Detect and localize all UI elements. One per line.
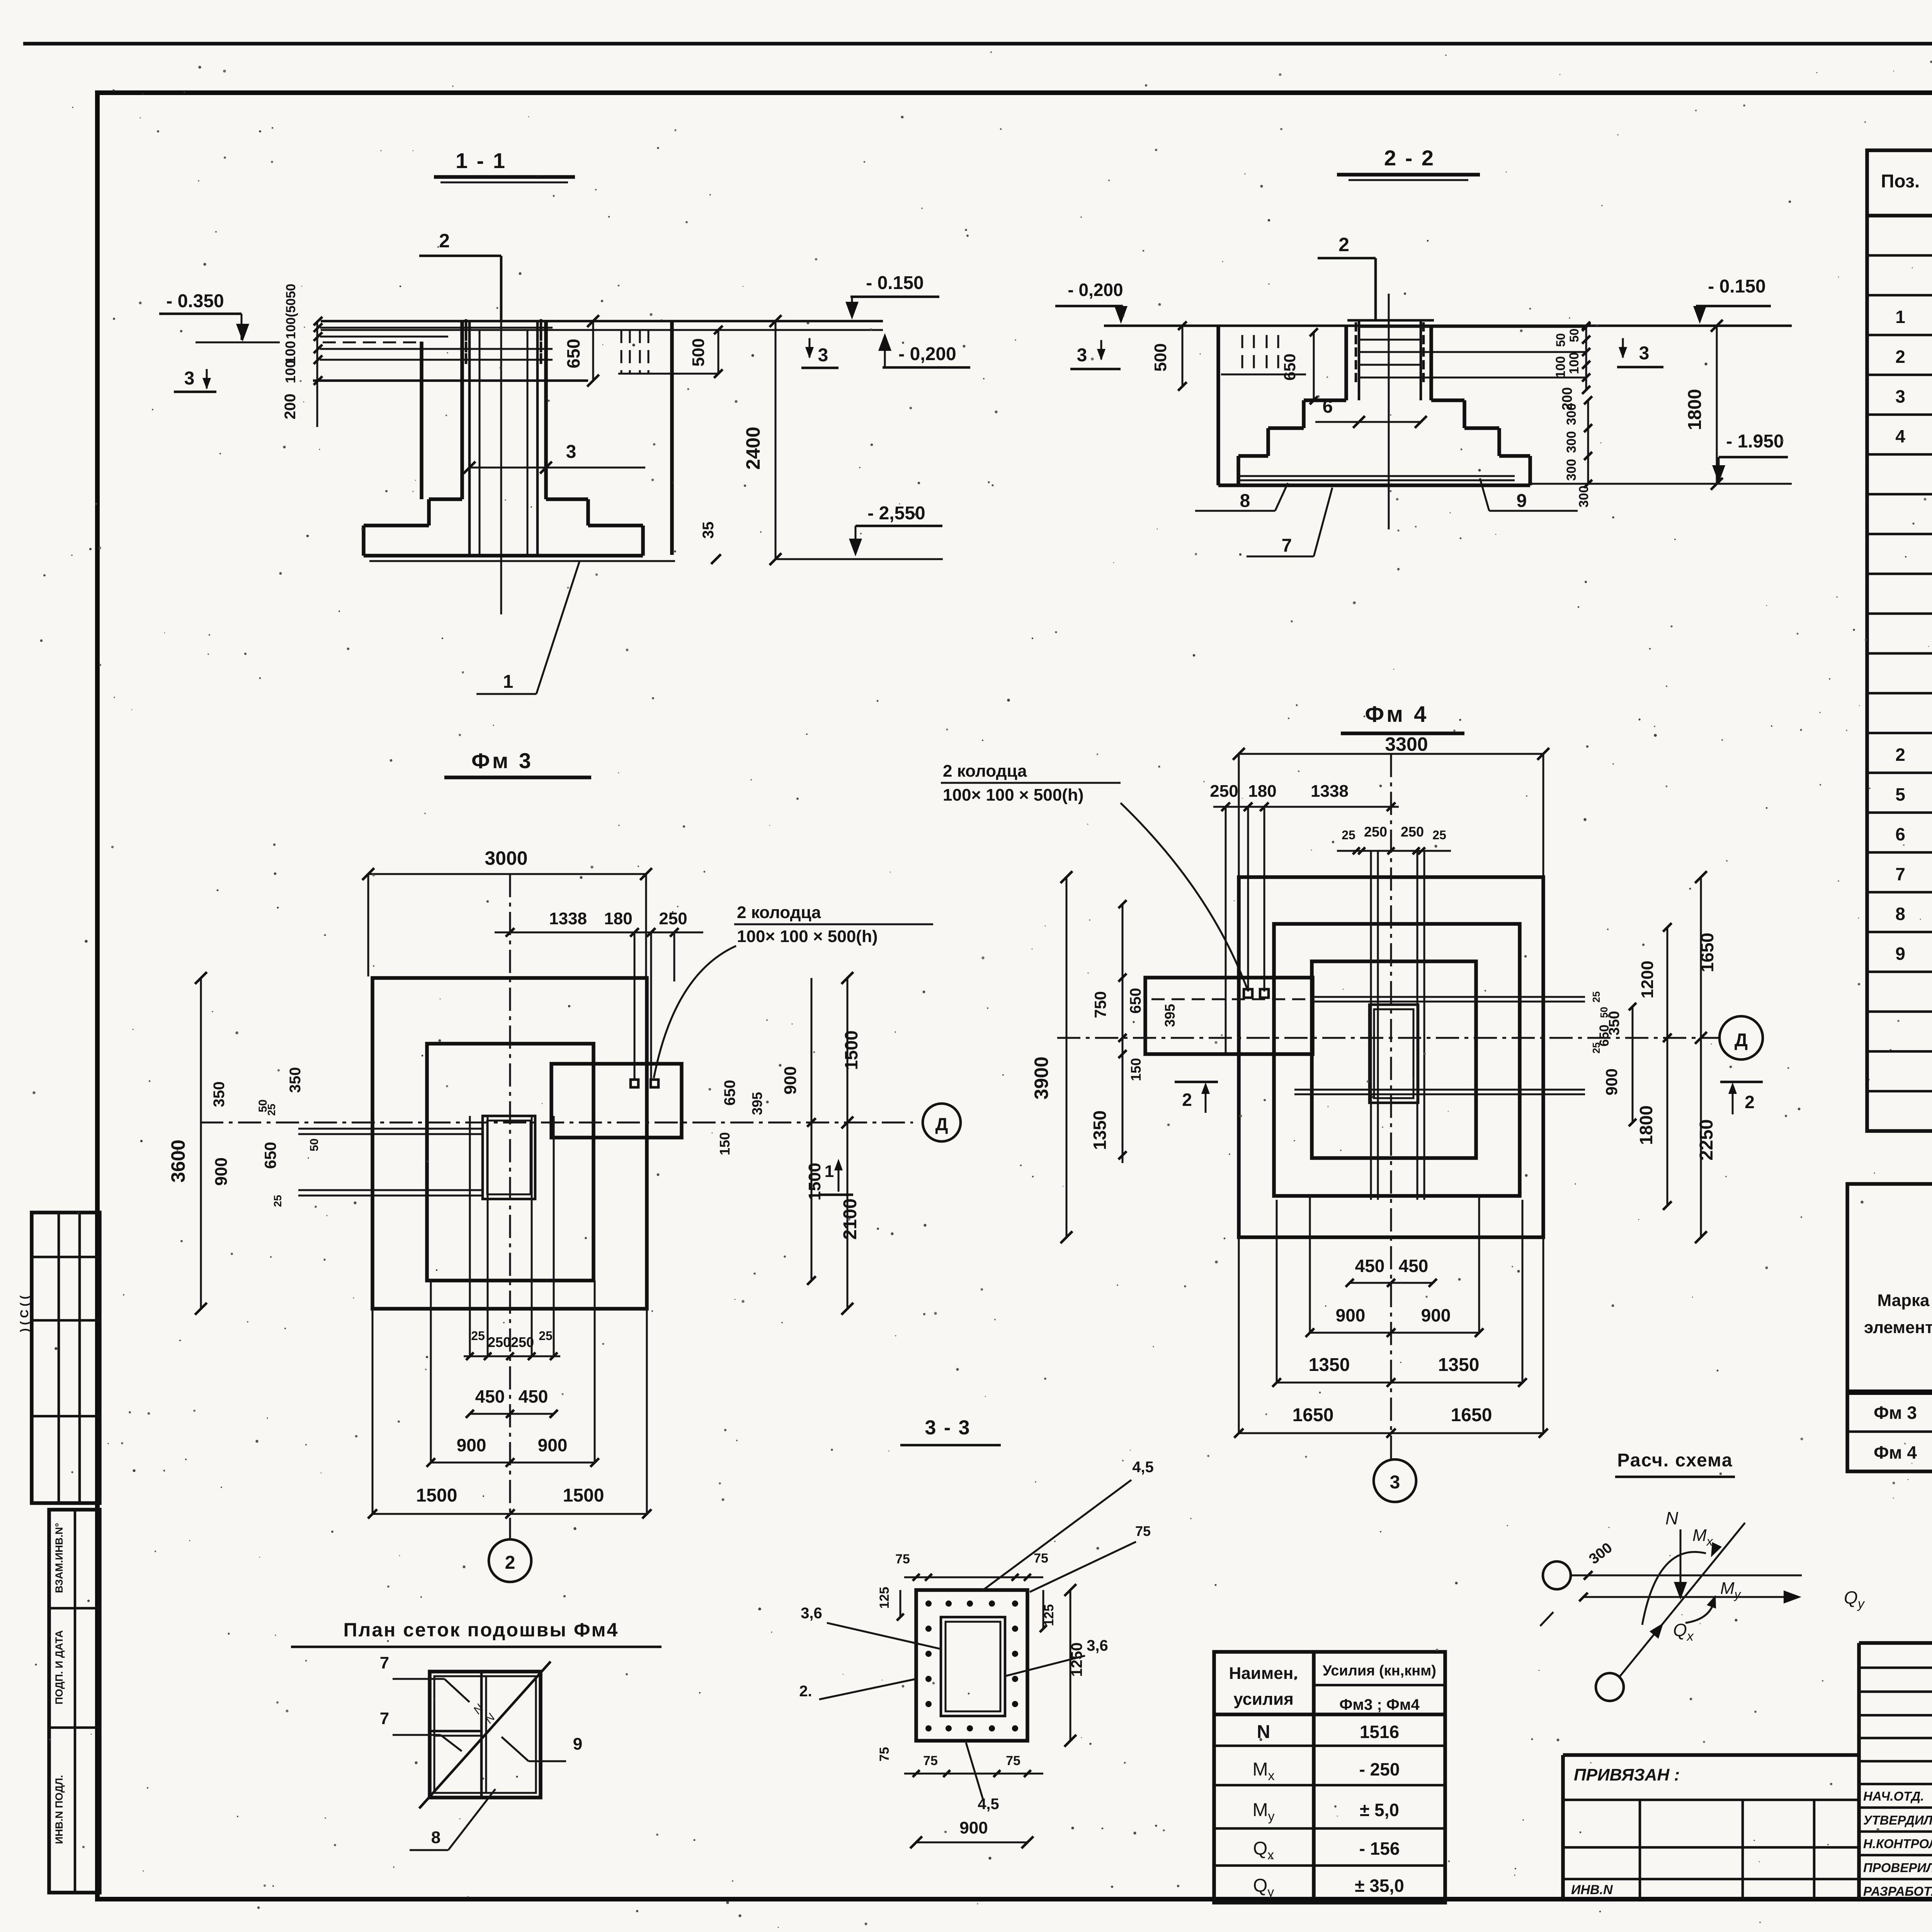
svg-text:1800: 1800 [1636,1105,1656,1145]
svg-text:900: 900 [1336,1305,1366,1325]
calc scheme node circle top [1543,1561,1571,1589]
plan Fm4 outer footprint [1239,877,1543,1237]
section 2-2 step dims 300 [1587,400,1589,484]
plan Fm4 wells [1244,989,1252,998]
section 2-2 left edge wall [1216,326,1220,485]
svg-text:ПРИВЯЗАН :: ПРИВЯЗАН : [1574,1765,1680,1784]
svg-text:1 - 1: 1 - 1 [456,148,507,173]
svg-text:250: 250 [1210,782,1238,801]
svg-text:- 0.150: - 0.150 [1708,276,1765,297]
svg-text:2 колодца: 2 колодца [943,762,1027,781]
svg-text:Фм 3: Фм 3 [1874,1403,1917,1423]
svg-text:1650: 1650 [1697,933,1717,972]
section 1-1 dim 2400 [775,321,777,559]
svg-text:Qy: Qy [1844,1587,1865,1611]
plan Fm4 dim 3300 [1239,753,1543,755]
left stamp upper table [32,1213,100,1503]
plan Fm3 bottom dims 450 450 [470,1413,554,1415]
svg-text:900: 900 [538,1435,568,1455]
calc scheme node circle bottom [1596,1673,1624,1701]
svg-text:650: 650 [721,1080,738,1106]
svg-text:900: 900 [212,1157,231,1185]
left stamp lower table [49,1510,100,1893]
svg-text:1: 1 [503,672,514,692]
plan Fm4 corbel block with wells [1145,978,1313,1054]
plan Fm3 middle block [427,1044,594,1281]
svg-text:Фм 4: Фм 4 [1365,702,1429,727]
svg-text:3: 3 [1390,1472,1400,1493]
svg-text:75: 75 [1034,1551,1048,1566]
svg-text:35: 35 [700,522,717,539]
section 3-3 dim 900 [916,1842,1027,1844]
svg-text:1500: 1500 [841,1031,861,1070]
svg-text:3: 3 [1639,343,1650,364]
section 2-2 lean concrete double line [1238,475,1515,477]
plan Fm3 axis circle 2 [489,1539,531,1582]
section 2-2 mesh extension lines and dims [1421,326,1586,328]
section 2-2 level line [1104,325,1792,327]
plan Fm3 bottom dims 25 250 250 25 [464,1355,560,1357]
svg-text:Расч. схема: Расч. схема [1617,1450,1733,1471]
svg-text:± 5,0: ± 5,0 [1360,1800,1399,1820]
svg-text:650: 650 [261,1142,279,1169]
plan Fm3 mesh bar pairs vertical [469,1116,471,1356]
calc scheme diagonal member [1619,1523,1745,1677]
svg-text:50: 50 [1567,328,1581,342]
plan Fm3 axes [200,1122,913,1124]
svg-text:3,6: 3,6 [1087,1637,1108,1654]
svg-text:1200: 1200 [1638,961,1657,998]
plan Fm4 mesh bar pairs horizontal [1151,998,1312,1000]
svg-text:2: 2 [1338,234,1349,255]
svg-text:3 - 3: 3 - 3 [925,1417,971,1439]
svg-text:1350: 1350 [1309,1355,1350,1375]
plan Fm3 wells [631,1080,638,1087]
svg-text:- 250: - 250 [1359,1759,1400,1779]
svg-text:100(5050: 100(5050 [284,284,298,339]
plan Fm3 bottom dims 1500 1500 [372,1513,647,1515]
svg-text:100× 100 × 500(h): 100× 100 × 500(h) [737,927,878,946]
svg-text:3: 3 [1077,345,1087,366]
svg-text:100: 100 [1567,352,1582,374]
svg-text:НАЧ.ОТД.: НАЧ.ОТД. [1863,1789,1924,1803]
plan Fm3 column pocket [483,1116,535,1199]
section 1-1 callout 3 [469,467,645,469]
svg-text:ИНВ.N: ИНВ.N [1571,1883,1613,1897]
svg-text:1: 1 [825,1162,834,1181]
svg-text:180: 180 [604,909,632,928]
section 2-2 dim 1800 [1716,326,1718,484]
plan Fm3 axis circle D [923,1104,961,1141]
calc scheme horizontal member lines [1571,1575,1802,1577]
svg-text:2.: 2. [799,1683,812,1700]
steel table grid [1847,1184,1932,1471]
svg-text:2250: 2250 [1696,1119,1717,1161]
svg-text:8: 8 [1895,904,1905,924]
svg-text:100× 100 × 500(h): 100× 100 × 500(h) [943,786,1083,804]
plan Fm3 mesh bar pairs horizontal [298,1128,483,1130]
svg-text:4,5: 4,5 [1132,1459,1154,1476]
svg-text:9: 9 [573,1735,582,1753]
forces table grid [1214,1652,1445,1903]
plan Fm4 bottom dims 1650 1650 [1239,1432,1543,1434]
svg-text:N: N [471,1702,486,1716]
svg-text:25: 25 [1432,828,1446,842]
svg-text:3600: 3600 [167,1139,189,1182]
plan setok inner dividers [480,1672,483,1798]
svg-text:100: 100 [282,360,298,383]
svg-text:3: 3 [566,442,577,462]
section 1-1 cup walls [460,321,464,499]
svg-text:7: 7 [380,1653,389,1672]
plan Fm4 column pocket [1369,1005,1418,1103]
svg-text:1500: 1500 [416,1485,457,1506]
plan Fm4 bottom dims 450 450 [1350,1282,1433,1284]
svg-text:450: 450 [519,1386,548,1406]
plan Fm3 dim 3000 [368,873,646,875]
svg-text:650: 650 [563,339,583,369]
svg-text:РАЗРАБОТАЛ: РАЗРАБОТАЛ [1863,1884,1932,1898]
svg-text:450: 450 [1355,1256,1385,1276]
section 1-1 left dim stack [316,321,318,427]
svg-text:900: 900 [1421,1305,1451,1325]
svg-text:900: 900 [959,1818,988,1837]
calc scheme stub line [1540,1612,1553,1626]
svg-text:150: 150 [717,1132,733,1155]
svg-text:650: 650 [1597,1025,1612,1047]
plan Fm4 bottom dims 1350 1350 [1277,1382,1522,1384]
svg-text:50: 50 [257,1099,269,1112]
svg-text:N: N [1257,1722,1270,1742]
specification table grid [1867,150,1932,1131]
plan Fm4 mesh bar pairs vertical [1370,851,1372,1200]
svg-text:1338: 1338 [1311,782,1349,801]
svg-text:8: 8 [431,1828,440,1847]
section 2-2 dim 650 [1313,332,1315,400]
svg-text:3000: 3000 [485,847,527,869]
svg-text:Н.КОНТРОЛЬ: Н.КОНТРОЛЬ [1863,1837,1932,1851]
section 2-2 anchor dashes left [1242,335,1243,374]
svg-text:500: 500 [1151,343,1170,371]
svg-text:N: N [1665,1508,1679,1528]
section 1-1 left pit wall [420,342,423,499]
section 3-3 bottom dims 75 75 [904,1773,1043,1775]
svg-text:6: 6 [1895,824,1905,844]
plan Fm3 outer footprint [372,978,647,1309]
title block outline [1859,1641,1932,1645]
svg-text:75: 75 [1006,1753,1020,1768]
svg-text:100: 100 [1553,356,1568,378]
svg-text:7: 7 [1895,864,1905,884]
section 3-3 outer contour [916,1590,1027,1741]
svg-text:- 0,200: - 0,200 [1068,280,1123,300]
svg-text:180: 180 [1248,782,1276,801]
svg-text:250: 250 [1401,824,1424,840]
svg-text:750: 750 [1091,991,1109,1018]
section 3-3 top dims 75 75 [904,1577,1043,1578]
svg-text:75: 75 [1135,1523,1151,1539]
svg-text:8: 8 [1240,491,1250,511]
section 1-1 lean concrete line [369,560,675,562]
svg-text:Поз.: Поз. [1881,171,1920,192]
svg-text:2: 2 [505,1553,515,1573]
plan setok mesh square [430,1672,541,1798]
svg-text:7: 7 [380,1709,389,1728]
svg-text:1650: 1650 [1293,1405,1334,1425]
svg-text:- 0.350: - 0.350 [166,291,224,311]
plan Fm4 axis circle D [1719,1016,1763,1060]
plan Fm3 right dim lines [847,978,849,1309]
title block left part lines [1563,1799,1859,1801]
svg-text:Марка: Марка [1877,1291,1930,1310]
svg-text:200: 200 [282,394,299,420]
svg-text:3: 3 [1895,386,1905,406]
svg-text:500: 500 [689,338,708,366]
svg-text:элемента: элемента [1864,1318,1932,1337]
section 1-1 mesh lines [320,327,553,329]
paper top edge line [23,42,1932,46]
svg-text:75: 75 [923,1753,938,1768]
svg-text:) ( С ( (: ) ( С ( ( [18,1296,31,1332]
svg-text:50: 50 [308,1138,321,1151]
svg-text:1350: 1350 [1090,1111,1110,1150]
svg-text:650: 650 [1281,354,1299,381]
svg-text:- 156: - 156 [1359,1838,1400,1859]
svg-text:450: 450 [1399,1256,1429,1276]
svg-text:50: 50 [1554,333,1568,347]
svg-text:3900: 3900 [1031,1056,1052,1099]
svg-text:25: 25 [272,1195,284,1207]
svg-text:1516: 1516 [1360,1722,1399,1742]
svg-text:My: My [1253,1800,1275,1824]
section 2-2 dim 500 [1182,326,1184,386]
plan Fm4 inner block [1312,961,1476,1158]
svg-text:Mx: Mx [1692,1526,1713,1548]
svg-text:7: 7 [1282,536,1292,556]
svg-text:ПРОВЕРИЛ: ПРОВЕРИЛ [1863,1861,1932,1875]
svg-text:1350: 1350 [1438,1355,1480,1375]
plan setok diagonal [419,1662,551,1808]
svg-text:Фм 3: Фм 3 [471,748,533,773]
svg-text:300: 300 [1577,486,1591,508]
section 3-3 inner contour [941,1617,1005,1716]
svg-text:Д: Д [1735,1030,1748,1051]
svg-text:6: 6 [1323,396,1333,417]
section 3-3 rebar dots [925,1600,932,1607]
plan Fm3 corbel block with wells [551,1064,682,1138]
svg-text:75: 75 [895,1552,910,1566]
svg-text:2 колодца: 2 колодца [737,903,821,922]
plan Fm3 dim 3600 [200,978,202,1309]
svg-text:2: 2 [1895,347,1905,367]
plan Fm4 axis circle 3 [1374,1459,1416,1502]
svg-text:ВЗАМ.ИНВ.N°: ВЗАМ.ИНВ.N° [53,1523,65,1593]
svg-text:300: 300 [1586,1539,1616,1567]
section 2-2 rebar cage [1347,319,1434,322]
svg-text:450: 450 [475,1386,505,1406]
section 1-1 cup bottom line [313,379,588,382]
svg-text:900: 900 [457,1435,486,1455]
svg-text:300: 300 [1564,403,1579,425]
plan Fm4 middle block [1274,924,1520,1196]
svg-text:Фм3 ; Фм4: Фм3 ; Фм4 [1339,1696,1420,1713]
svg-text:4: 4 [1895,426,1905,446]
svg-text:3,6: 3,6 [801,1605,822,1622]
svg-text:350: 350 [287,1067,304,1093]
svg-text:250: 250 [511,1334,534,1350]
svg-text:150: 150 [1128,1058,1144,1081]
svg-text:75: 75 [877,1747,892,1762]
svg-text:1338: 1338 [549,909,587,928]
section 2-2 steps [1304,398,1346,402]
svg-text:Qx: Qx [1673,1620,1694,1644]
plan Fm4 bottom dims 900 900 [1310,1332,1479,1334]
title block rows [1859,1667,1932,1669]
section 1-1 steps and slab [429,497,462,501]
section 2-2 cup walls [1344,326,1348,400]
svg-text:± 35,0: ± 35,0 [1355,1876,1404,1896]
svg-text:2: 2 [1895,745,1905,765]
svg-text:900: 900 [781,1066,800,1094]
svg-text:Mx: Mx [1253,1759,1275,1783]
svg-text:250: 250 [488,1334,511,1350]
svg-text:Наимен.: Наимен. [1229,1664,1298,1683]
svg-text:25: 25 [539,1329,553,1343]
svg-text:650: 650 [1127,988,1144,1014]
svg-text:Qy: Qy [1253,1876,1274,1900]
svg-text:ПОДП. И ДАТА: ПОДП. И ДАТА [53,1630,65,1704]
plan Fm3 bottom dims 900 900 [431,1462,595,1464]
svg-text:25: 25 [1342,828,1355,842]
svg-text:2 - 2: 2 - 2 [1384,146,1435,170]
svg-text:- 0.150: - 0.150 [866,273,923,293]
svg-text:усилия: усилия [1233,1690,1294,1709]
plan Fm4 left dims [1066,877,1068,1237]
plan Fm4 axes [1057,1037,1719,1039]
svg-text:УТВЕРДИЛ: УТВЕРДИЛ [1863,1813,1932,1827]
svg-text:25: 25 [471,1329,485,1343]
svg-text:5: 5 [1895,784,1905,804]
svg-text:Д: Д [935,1114,948,1134]
svg-text:350: 350 [211,1082,228,1107]
svg-text:2: 2 [1182,1090,1192,1110]
svg-text:ИНВ.N ПОДЛ.: ИНВ.N ПОДЛ. [53,1775,65,1844]
section 1-1 dim 650 [592,321,594,381]
section 1-1 rebar cage [468,321,471,554]
svg-text:250: 250 [1364,824,1387,840]
svg-text:1500: 1500 [563,1485,604,1506]
svg-text:395: 395 [1162,1004,1178,1027]
section 2-2 axis [1388,294,1390,529]
svg-text:Фм 4: Фм 4 [1874,1442,1917,1463]
svg-text:300: 300 [1564,459,1579,481]
svg-text:2: 2 [439,230,450,252]
svg-text:2: 2 [1745,1092,1755,1112]
svg-text:- 0,200: - 0,200 [898,344,956,364]
plan Fm4 right dims [1700,877,1702,1237]
svg-text:План сеток подошвы Фм4: План сеток подошвы Фм4 [344,1619,619,1641]
plan Fm4 dims 25 250 250 25 [1337,850,1451,852]
svg-text:Усилия (кн,кнм): Усилия (кн,кнм) [1323,1663,1436,1679]
plan Fm3 dims 1338 180 250 [495,932,703,934]
svg-text:300: 300 [1564,431,1579,453]
svg-text:395: 395 [749,1092,765,1115]
svg-text:- 1.950: - 1.950 [1726,431,1784,452]
svg-text:3: 3 [184,368,195,389]
section 1-1 column axis [500,321,502,614]
svg-text:2400: 2400 [742,427,764,469]
section 3-3 dim 1250 [1070,1590,1071,1741]
svg-text:9: 9 [1517,491,1527,511]
section 1-1 anchor dashes and dim 500 [621,330,622,373]
plan Fm4 dims 250 180 1338 [1213,806,1399,808]
svg-text:900: 900 [1602,1068,1621,1095]
svg-text:4,5: 4,5 [978,1796,999,1813]
svg-text:125: 125 [877,1587,892,1609]
svg-text:9: 9 [1895,944,1905,964]
svg-text:1800: 1800 [1685,389,1705,430]
svg-text:3: 3 [818,345,828,366]
svg-text:1: 1 [1895,307,1905,327]
section 1-1 floor level lines [321,320,883,323]
calc scheme force N arrow [1680,1529,1682,1594]
svg-text:25: 25 [1590,992,1602,1003]
svg-text:1650: 1650 [1451,1405,1492,1425]
svg-text:3300: 3300 [1385,733,1428,755]
section 1-1 excavation edge [670,321,674,555]
